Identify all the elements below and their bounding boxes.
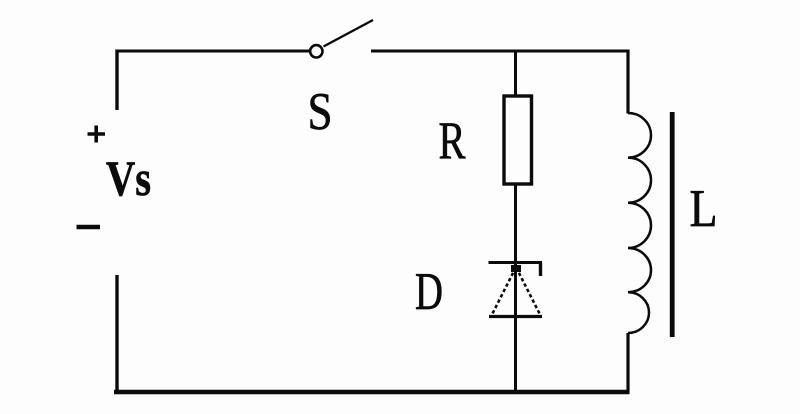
inductor L winding (5 turns) [628, 113, 651, 333]
svg-text:S: S [308, 83, 333, 141]
diode D: cathode bar [489, 261, 543, 264]
node: junction of R branch on top rail [514, 51, 517, 96]
wire: left vertical upper segment (top rail to source +) [115, 50, 118, 111]
diode D: cathode bar hook (right end) [539, 263, 542, 277]
svg-text:R: R [439, 112, 466, 170]
battery source Vs: plus terminal [88, 126, 106, 143]
wire: resistor bottom through diode to bottom rail [514, 184, 517, 393]
wire: right vertical lower segment (coil to bottom rail) [626, 333, 629, 393]
wire: right vertical upper segment (top rail to coil) [626, 50, 629, 114]
switch S: lever arm [324, 20, 374, 47]
wire: top rail right segment (switch to right corner) [371, 50, 630, 53]
wire: top rail left segment (source to switch) [116, 50, 310, 53]
wire: bottom rail [114, 390, 630, 394]
diode D: anode triangle sides [492, 268, 541, 316]
wire: left vertical lower segment (source - to bottom rail) [115, 275, 118, 393]
diode D: anode base bar [489, 315, 542, 318]
inductor L core bar [670, 112, 675, 337]
svg-text:Vs: Vs [106, 150, 151, 206]
junction dot at diode apex [511, 265, 521, 272]
battery source Vs: minus terminal [77, 225, 101, 230]
svg-text:D: D [415, 263, 443, 321]
resistor R body [504, 96, 532, 184]
switch S: pivot contact circle [310, 45, 322, 57]
svg-text:L: L [690, 180, 718, 238]
